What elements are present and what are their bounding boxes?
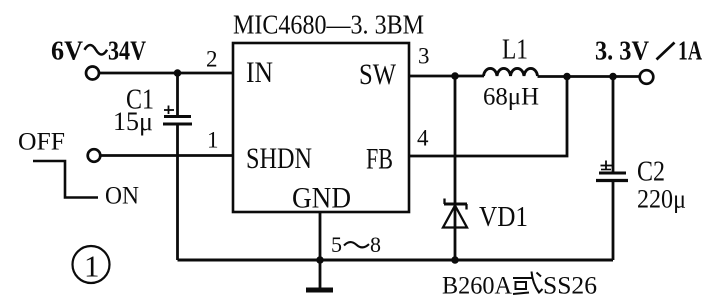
- node VD1 anode junction: [451, 256, 459, 264]
- switch waveform OFF/ON: [33, 161, 98, 198]
- svg-text:6V: 6V: [51, 36, 83, 66]
- svg-text:1A: 1A: [678, 36, 702, 66]
- svg-text:MIC4680—3. 3BM: MIC4680—3. 3BM: [233, 10, 424, 40]
- svg-text:220μ: 220μ: [637, 185, 686, 214]
- terminal input: [86, 67, 99, 80]
- ground: [306, 260, 333, 290]
- inductor L1: [484, 68, 538, 76]
- symbol circled figure number 1: [73, 246, 110, 283]
- capacitor C2: [596, 161, 628, 181]
- glyph chinese or: [513, 272, 543, 295]
- svg-text:FB: FB: [366, 143, 393, 176]
- diode VD1 schottky: [443, 199, 467, 228]
- capacitor C1: [163, 106, 192, 125]
- wire C1 top: [176, 73, 179, 115]
- svg-text:GND: GND: [292, 182, 351, 215]
- svg-text:IN: IN: [246, 56, 273, 89]
- svg-text:3: 3: [418, 44, 430, 69]
- wire bottom ground rail: [178, 259, 614, 262]
- wire C1 bottom to ground rail: [176, 124, 179, 260]
- svg-text:ON: ON: [105, 183, 139, 210]
- svg-text:SW: SW: [359, 58, 397, 91]
- svg-text:2: 2: [206, 47, 218, 72]
- wire switch to pin 1: [101, 154, 233, 157]
- svg-text:1: 1: [84, 249, 100, 284]
- wire C2 top: [612, 77, 615, 173]
- svg-text:68μH: 68μH: [483, 84, 539, 111]
- wire input to pin 2: [98, 72, 233, 75]
- svg-text:34V: 34V: [108, 36, 146, 66]
- svg-text:OFF: OFF: [18, 129, 65, 156]
- wire FB feedback: [409, 77, 567, 157]
- svg-text:SS26: SS26: [543, 273, 597, 300]
- svg-text:8: 8: [370, 232, 381, 257]
- svg-text:SHDN: SHDN: [246, 142, 312, 175]
- svg-text:15μ: 15μ: [113, 107, 153, 136]
- terminal output: [640, 70, 654, 84]
- node L1 out junction: [563, 73, 571, 81]
- wire C2 bottom to ground rail: [612, 181, 615, 261]
- svg-text:B260A: B260A: [442, 273, 512, 300]
- op-amp U1 MIC4680-3.3BM regulator body: [233, 43, 409, 212]
- node input junction: [174, 69, 182, 77]
- wire SW pin 3 to inductor: [409, 75, 484, 78]
- svg-text:L1: L1: [502, 35, 528, 66]
- svg-text:C2: C2: [637, 157, 665, 188]
- svg-text:5: 5: [331, 232, 342, 257]
- svg-text:1: 1: [207, 128, 219, 153]
- wire VD1 branch: [454, 76, 457, 260]
- wire GND pin stub: [319, 212, 322, 260]
- wire inductor to output terminal: [538, 75, 640, 78]
- svg-text:3. 3V: 3. 3V: [595, 36, 649, 66]
- node C2 top junction: [609, 73, 617, 81]
- node ground junction: [316, 256, 324, 264]
- svg-text:VD1: VD1: [479, 202, 528, 233]
- terminal shutdown: [88, 149, 101, 162]
- svg-text:4: 4: [417, 126, 429, 151]
- node SW junction: [451, 72, 459, 80]
